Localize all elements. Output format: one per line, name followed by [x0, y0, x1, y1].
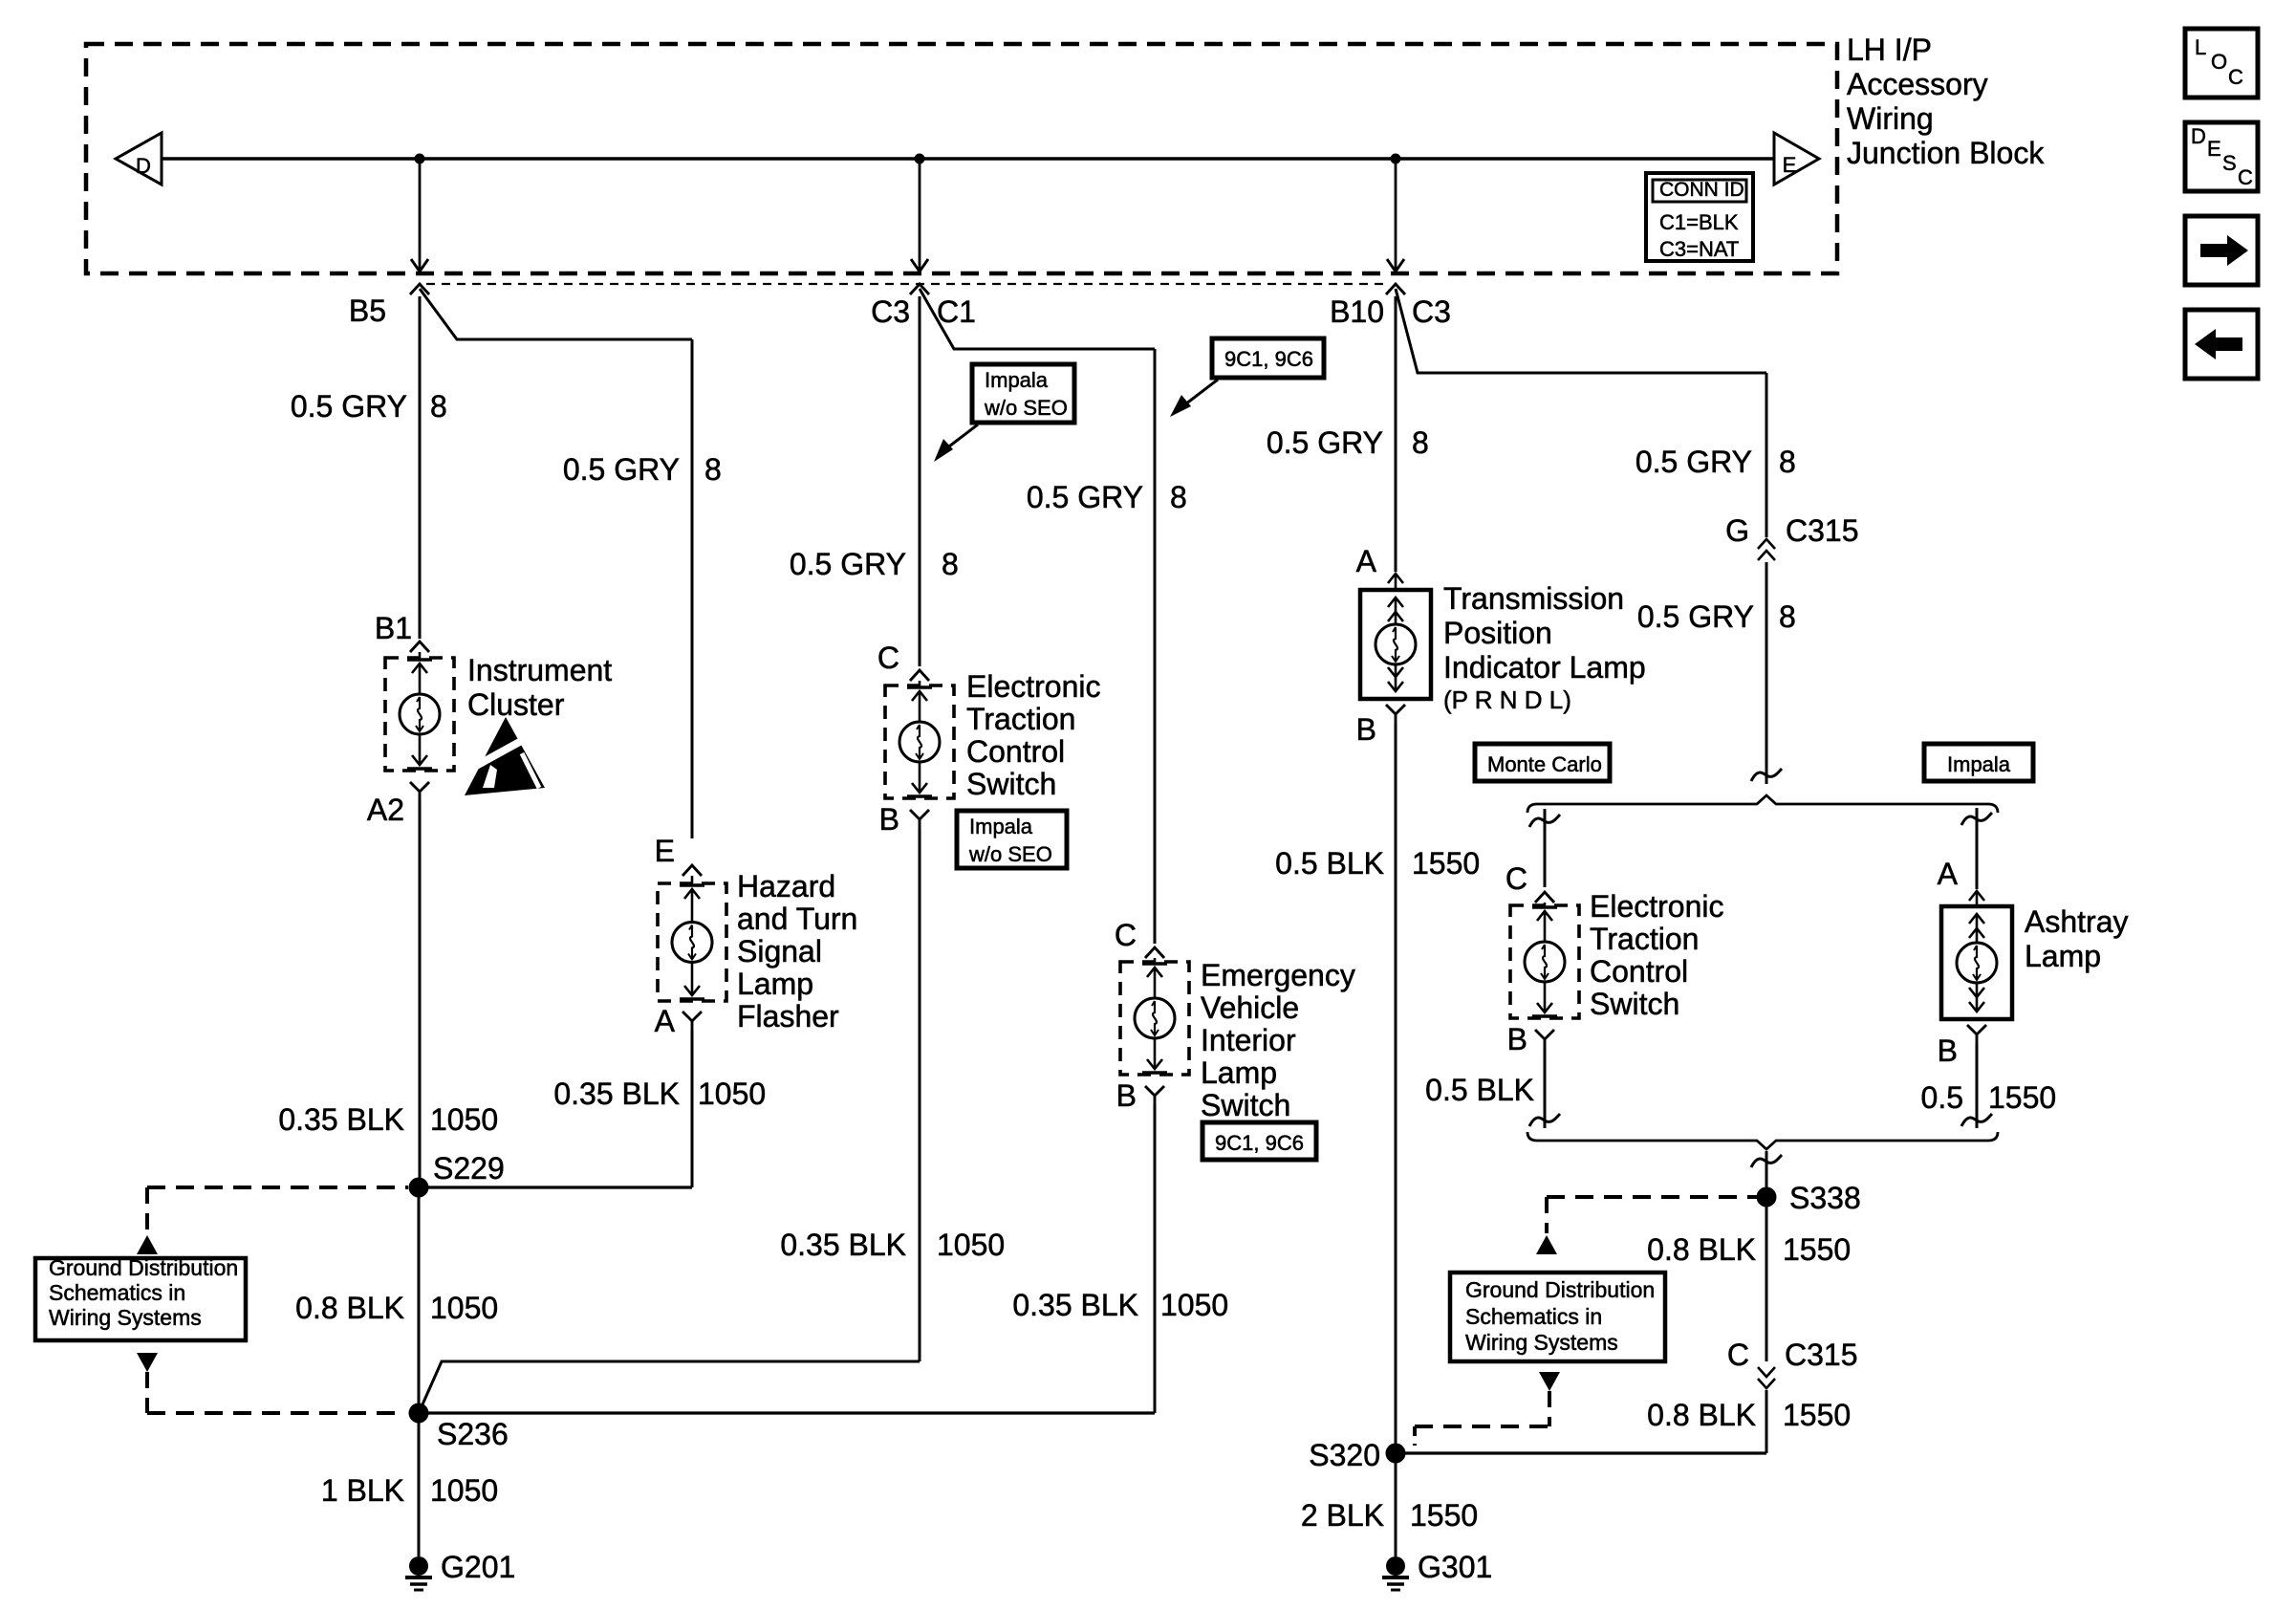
svg-text:0.8 BLK: 0.8 BLK [1647, 1398, 1756, 1432]
svg-text:C315: C315 [1785, 1338, 1858, 1372]
svg-text:E: E [655, 834, 675, 868]
svg-text:9C1, 9C6: 9C1, 9C6 [1224, 347, 1313, 371]
svg-text:Lamp: Lamp [2025, 939, 2101, 973]
svg-text:Cluster: Cluster [467, 687, 565, 722]
svg-text:1550: 1550 [1410, 1498, 1478, 1533]
svg-text:8: 8 [704, 452, 722, 487]
svg-text:0.35 BLK: 0.35 BLK [1012, 1288, 1138, 1322]
svg-text:S: S [2222, 151, 2237, 175]
svg-text:Impala: Impala [1947, 752, 2011, 776]
svg-text:Impala: Impala [969, 815, 1033, 838]
svg-text:G301: G301 [1418, 1550, 1492, 1584]
svg-text:1050: 1050 [1160, 1288, 1228, 1322]
svg-text:Instrument: Instrument [467, 653, 612, 687]
svg-text:D: D [136, 154, 151, 178]
svg-text:0.5 GRY: 0.5 GRY [1027, 480, 1143, 514]
svg-text:E: E [2207, 137, 2221, 161]
svg-text:C315: C315 [1786, 513, 1859, 548]
svg-text:Switch: Switch [1590, 987, 1679, 1021]
svg-text:C: C [1115, 918, 1137, 952]
svg-text:D: D [2191, 124, 2206, 148]
svg-text:B10: B10 [1330, 294, 1384, 329]
svg-text:B: B [1507, 1022, 1527, 1056]
svg-text:G201: G201 [441, 1550, 515, 1584]
svg-text:0.8 BLK: 0.8 BLK [1647, 1232, 1756, 1267]
svg-text:C: C [2228, 65, 2243, 89]
svg-text:and Turn: and Turn [737, 902, 857, 936]
svg-text:B1: B1 [375, 611, 412, 645]
svg-text:Emergency: Emergency [1201, 958, 1355, 992]
svg-text:LH I/P: LH I/P [1847, 33, 1932, 67]
svg-text:Flasher: Flasher [737, 999, 839, 1033]
svg-text:S320: S320 [1309, 1438, 1380, 1472]
svg-text:Vehicle: Vehicle [1201, 990, 1299, 1025]
svg-text:A: A [1938, 857, 1959, 891]
svg-text:Control: Control [966, 734, 1065, 769]
svg-text:0.5: 0.5 [1921, 1080, 1963, 1115]
svg-text:S229: S229 [433, 1151, 505, 1186]
svg-text:G: G [1725, 513, 1749, 548]
svg-text:B: B [1938, 1033, 1958, 1068]
svg-text:B5: B5 [349, 294, 386, 328]
svg-text:A2: A2 [367, 793, 404, 827]
svg-text:Traction: Traction [1590, 922, 1699, 956]
svg-text:C: C [1727, 1338, 1749, 1372]
svg-text:Ground Distribution: Ground Distribution [1465, 1277, 1655, 1302]
svg-text:1050: 1050 [430, 1102, 498, 1137]
svg-text:0.5 GRY: 0.5 GRY [1267, 425, 1383, 460]
svg-text:C1=BLK: C1=BLK [1659, 210, 1739, 234]
svg-text:0.35 BLK: 0.35 BLK [553, 1077, 680, 1111]
svg-text:Impala: Impala [985, 368, 1049, 392]
svg-text:Lamp: Lamp [737, 967, 813, 1001]
svg-text:C: C [1505, 861, 1527, 896]
svg-text:C3: C3 [1412, 294, 1451, 329]
svg-text:1050: 1050 [430, 1473, 498, 1508]
svg-text:Wiring Systems: Wiring Systems [1465, 1330, 1618, 1355]
svg-text:Interior: Interior [1201, 1023, 1296, 1057]
svg-text:Junction Block: Junction Block [1847, 136, 2045, 170]
svg-text:0.5 GRY: 0.5 GRY [1635, 445, 1752, 479]
svg-text:L: L [2195, 35, 2206, 59]
svg-text:A: A [655, 1004, 676, 1038]
svg-text:Lamp: Lamp [1201, 1055, 1277, 1090]
svg-text:Wiring: Wiring [1847, 101, 1934, 136]
svg-text:Accessory: Accessory [1847, 67, 1988, 101]
svg-text:0.5 GRY: 0.5 GRY [790, 547, 906, 581]
svg-text:0.5 GRY: 0.5 GRY [1637, 599, 1754, 634]
svg-text:C: C [877, 641, 899, 675]
svg-text:Signal: Signal [737, 934, 822, 968]
svg-text:2 BLK: 2 BLK [1301, 1498, 1384, 1533]
svg-text:Position: Position [1443, 616, 1552, 650]
svg-text:Ashtray: Ashtray [2025, 904, 2128, 939]
svg-text:8: 8 [430, 389, 447, 424]
svg-text:0.5 GRY: 0.5 GRY [291, 389, 407, 424]
svg-text:C3: C3 [871, 294, 910, 329]
svg-text:Electronic: Electronic [966, 669, 1101, 704]
svg-text:(P R N D L): (P R N D L) [1443, 685, 1571, 714]
svg-text:0.5 BLK: 0.5 BLK [1425, 1073, 1534, 1107]
svg-text:Electronic: Electronic [1590, 889, 1724, 924]
svg-text:Indicator Lamp: Indicator Lamp [1443, 650, 1646, 685]
svg-text:8: 8 [942, 547, 959, 581]
svg-text:Schematics in: Schematics in [49, 1280, 185, 1305]
svg-text:0.35 BLK: 0.35 BLK [278, 1102, 404, 1137]
svg-text:w/o SEO: w/o SEO [968, 842, 1052, 866]
svg-text:0.5 GRY: 0.5 GRY [563, 452, 680, 487]
svg-text:Hazard: Hazard [737, 869, 835, 903]
svg-text:B: B [1116, 1078, 1137, 1113]
svg-text:Wiring Systems: Wiring Systems [49, 1305, 202, 1330]
svg-text:B: B [879, 802, 899, 837]
svg-text:8: 8 [1779, 445, 1796, 479]
svg-text:Switch: Switch [1201, 1088, 1290, 1122]
svg-text:8: 8 [1170, 480, 1187, 514]
svg-text:C: C [2238, 165, 2253, 189]
svg-text:C3=NAT: C3=NAT [1659, 237, 1739, 261]
svg-text:1050: 1050 [937, 1228, 1005, 1262]
svg-text:1050: 1050 [430, 1291, 498, 1325]
svg-text:Traction: Traction [966, 702, 1075, 736]
svg-text:A: A [1356, 544, 1377, 578]
svg-text:9C1, 9C6: 9C1, 9C6 [1215, 1131, 1304, 1155]
svg-text:Monte Carlo: Monte Carlo [1487, 752, 1602, 776]
svg-text:1 BLK: 1 BLK [321, 1473, 404, 1508]
svg-text:8: 8 [1779, 599, 1796, 634]
svg-text:1050: 1050 [698, 1077, 766, 1111]
svg-text:w/o SEO: w/o SEO [984, 396, 1068, 420]
svg-text:Schematics in: Schematics in [1465, 1304, 1602, 1329]
svg-text:S236: S236 [437, 1417, 509, 1451]
svg-text:1550: 1550 [1988, 1080, 2056, 1115]
svg-text:1550: 1550 [1783, 1398, 1851, 1432]
svg-text:1550: 1550 [1783, 1232, 1851, 1267]
svg-text:8: 8 [1412, 425, 1429, 460]
svg-text:Transmission: Transmission [1443, 581, 1624, 616]
svg-text:CONN ID: CONN ID [1659, 179, 1744, 201]
svg-text:O: O [2211, 50, 2227, 74]
svg-text:0.35 BLK: 0.35 BLK [780, 1228, 906, 1262]
svg-text:Ground Distribution: Ground Distribution [49, 1255, 238, 1280]
svg-text:0.5 BLK: 0.5 BLK [1275, 846, 1384, 881]
svg-text:E: E [1783, 153, 1797, 177]
svg-text:Control: Control [1590, 954, 1688, 989]
svg-text:C1: C1 [937, 294, 976, 329]
svg-text:Switch: Switch [966, 767, 1056, 801]
svg-text:1550: 1550 [1412, 846, 1480, 881]
svg-text:S338: S338 [1789, 1181, 1861, 1215]
svg-text:B: B [1356, 712, 1376, 747]
svg-text:0.8 BLK: 0.8 BLK [295, 1291, 404, 1325]
